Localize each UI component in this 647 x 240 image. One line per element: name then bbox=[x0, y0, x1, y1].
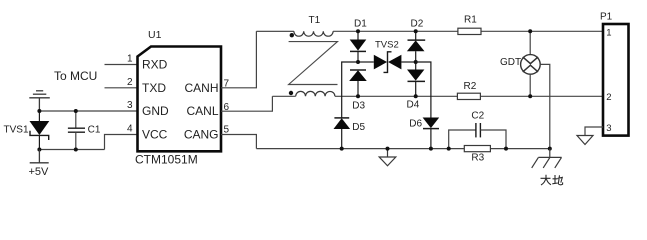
transformer T1 coupling mark (Z) bbox=[289, 42, 338, 85]
power symbol +5V bbox=[30, 150, 49, 163]
svg-text:VCC: VCC bbox=[142, 128, 168, 142]
svg-text:To MCU: To MCU bbox=[54, 69, 97, 83]
svg-text:RXD: RXD bbox=[142, 58, 168, 72]
wire TXD stub (pin2 to MCU) bbox=[105, 87, 138, 89]
wire +5V rail bbox=[39, 149, 105, 151]
diode D6 (node B to ground rail) bbox=[416, 62, 440, 149]
wire VCC step (pin4) bbox=[105, 135, 138, 150]
svg-text:CTM1051M: CTM1051M bbox=[135, 153, 198, 167]
junction ground symbol rail bbox=[386, 147, 390, 151]
node B junction (D2/D4/TVS2) bbox=[414, 60, 418, 64]
resistor R1 bbox=[458, 28, 481, 34]
wire CANG (pin5 down to ground rail) bbox=[221, 135, 256, 149]
svg-text:CANL: CANL bbox=[186, 104, 218, 118]
junction C1 bottom bbox=[74, 148, 78, 152]
junction D2 top rail bbox=[414, 29, 418, 33]
svg-text:5: 5 bbox=[224, 124, 230, 135]
svg-text:R1: R1 bbox=[464, 14, 477, 25]
wire RXD stub (pin1 to MCU) bbox=[105, 64, 138, 66]
gas discharge tube GDT bbox=[521, 31, 550, 148]
wire CANH top rail (T1 to R1) bbox=[333, 30, 458, 32]
wire GND rail (pin3 to TVS1/C1) bbox=[39, 110, 137, 112]
T1 polarity dot (top winding) bbox=[290, 33, 294, 37]
svg-text:R2: R2 bbox=[464, 81, 477, 92]
svg-text:1: 1 bbox=[127, 54, 133, 65]
diode D1 bbox=[350, 31, 367, 62]
transformer T1 top winding bbox=[256, 31, 333, 36]
svg-text:D3: D3 bbox=[352, 101, 365, 112]
junction D6 ground rail bbox=[429, 147, 433, 151]
svg-text:TXD: TXD bbox=[142, 81, 166, 95]
junction D3 bottom (mid rail) bbox=[356, 94, 360, 98]
TVS diode TVS2 (bidirectional) bbox=[358, 52, 416, 73]
ground symbol (above TVS1) bbox=[29, 91, 50, 111]
junction D1 top rail bbox=[356, 29, 360, 33]
junction TVS1 top bbox=[37, 109, 41, 113]
junction GDT top rail bbox=[528, 29, 532, 33]
wire CANH (pin7 up to top rail) bbox=[221, 31, 256, 88]
svg-text:GND: GND bbox=[142, 104, 169, 118]
svg-text:TVS1: TVS1 bbox=[4, 125, 29, 136]
wire CANL (pin6 up to mid rail) bbox=[221, 96, 272, 111]
svg-text:D2: D2 bbox=[411, 18, 424, 29]
junction earth branch ground rail bbox=[548, 147, 552, 151]
svg-text:U1: U1 bbox=[148, 29, 162, 41]
wire CANL mid rail (R2 to P1 pin2) bbox=[480, 95, 603, 97]
junction TVS1 bottom bbox=[37, 148, 41, 152]
junction C2 right (ground rail) bbox=[504, 147, 508, 151]
wire CANL mid rail (T1 to R2) bbox=[272, 95, 295, 97]
wire ground rail (CANG net) bbox=[256, 148, 549, 150]
diode D3 bbox=[349, 70, 367, 96]
diode D2 bbox=[407, 31, 425, 62]
junction D5 ground rail bbox=[340, 147, 344, 151]
svg-text:4: 4 bbox=[127, 124, 133, 135]
ground symbol (middle, on ground rail) bbox=[379, 149, 396, 166]
svg-text:2: 2 bbox=[127, 77, 133, 88]
svg-text:GDT: GDT bbox=[500, 57, 521, 68]
wire CANH top rail (R1 to P1 pin1) bbox=[481, 30, 603, 32]
svg-text:6: 6 bbox=[224, 102, 230, 113]
earth symbol (大地) bbox=[532, 149, 562, 168]
junction C2 left (ground rail) bbox=[447, 147, 451, 151]
svg-text:T1: T1 bbox=[309, 15, 321, 26]
svg-text:7: 7 bbox=[224, 79, 230, 90]
svg-text:C1: C1 bbox=[88, 125, 101, 136]
svg-text:D5: D5 bbox=[352, 122, 365, 133]
svg-text:3: 3 bbox=[127, 100, 133, 111]
connector P1 bbox=[603, 24, 629, 136]
resistor R3 bbox=[464, 146, 490, 152]
T1 polarity dot (bottom winding) bbox=[289, 91, 293, 95]
capacitor C2 (parallel with R3) bbox=[449, 123, 506, 149]
svg-text:2: 2 bbox=[606, 92, 611, 103]
node A junction (D1/D3/TVS2) bbox=[356, 60, 360, 64]
wire P1 pin3 bbox=[585, 127, 603, 136]
diode D5 (node A to ground rail) bbox=[334, 62, 359, 149]
junction D4 bottom (mid rail) bbox=[414, 94, 418, 98]
svg-text:CANH: CANH bbox=[184, 81, 218, 95]
svg-text:D4: D4 bbox=[407, 100, 420, 111]
resistor R2 bbox=[457, 93, 480, 99]
svg-text:D1: D1 bbox=[354, 18, 367, 29]
svg-text:1: 1 bbox=[606, 28, 611, 39]
svg-text:P1: P1 bbox=[600, 11, 613, 22]
TVS diode TVS1 bbox=[30, 111, 50, 150]
svg-text:D6: D6 bbox=[409, 118, 422, 129]
junction GDT mid rail bbox=[528, 94, 532, 98]
svg-text:CANG: CANG bbox=[184, 128, 219, 142]
IC U1 body (CTM1051M) bbox=[138, 47, 222, 152]
svg-text:R3: R3 bbox=[471, 152, 484, 163]
junction C1 top bbox=[74, 109, 78, 113]
capacitor C1 bbox=[68, 111, 85, 150]
svg-text:TVS2: TVS2 bbox=[375, 39, 399, 50]
ground symbol (P1 pin3) bbox=[577, 136, 593, 145]
diode D4 bbox=[407, 62, 425, 96]
transformer T1 bottom winding bbox=[296, 91, 335, 96]
label 大地 (drawn strokes) bbox=[541, 175, 563, 185]
svg-text:3: 3 bbox=[606, 123, 611, 134]
svg-text:+5V: +5V bbox=[29, 166, 50, 178]
svg-text:C2: C2 bbox=[471, 111, 484, 122]
